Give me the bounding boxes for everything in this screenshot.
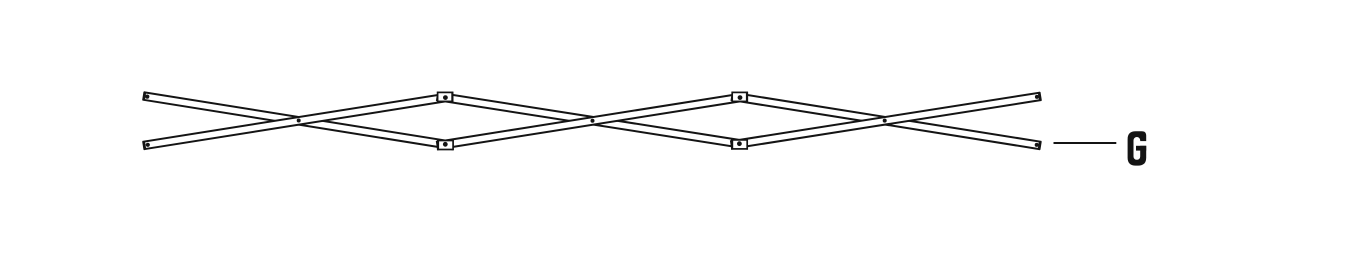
bar U2 (bottom joint 1 to top joint 2) xyxy=(437,93,748,149)
bar D2 (top joint 1 to bottom joint 2) xyxy=(437,93,748,149)
label G xyxy=(1128,131,1147,165)
pivot dot crossing 2 xyxy=(591,119,595,123)
top joint 2 bracket xyxy=(732,92,747,101)
end cap right-bottom bar xyxy=(1039,141,1040,149)
pivot dot right-top end xyxy=(1035,95,1039,99)
leader line to label G xyxy=(1054,142,1117,144)
pivot dot bottom joint 1 xyxy=(443,142,448,147)
end cap left-top bar xyxy=(144,92,145,100)
end cap right-top bar xyxy=(1039,92,1040,100)
bar D3 (top joint 2 to right-bottom end) xyxy=(732,93,1041,149)
pivot dot left-top end xyxy=(145,95,149,99)
bar D1 (left-top to bottom joint 1) xyxy=(144,92,454,149)
pivot dot top joint 1 xyxy=(443,95,448,100)
pivot dot left-bottom end xyxy=(146,143,150,147)
pivot dot crossing 1 xyxy=(297,119,301,123)
pivot dot right-bottom end xyxy=(1035,143,1039,147)
end cap left-bottom bar xyxy=(144,141,145,150)
top joint 1 bracket xyxy=(438,92,453,101)
bar U3 (bottom joint 2 to right-top end) xyxy=(731,93,1040,149)
bottom joint 1 bracket xyxy=(438,141,453,150)
pivot dot top joint 2 xyxy=(738,95,743,100)
pivot dot bottom joint 2 xyxy=(737,141,742,146)
bar U1 (left-bottom to top joint 1) xyxy=(144,93,454,149)
pivot dot crossing 3 xyxy=(883,119,887,123)
bottom joint 2 bracket xyxy=(732,140,747,149)
